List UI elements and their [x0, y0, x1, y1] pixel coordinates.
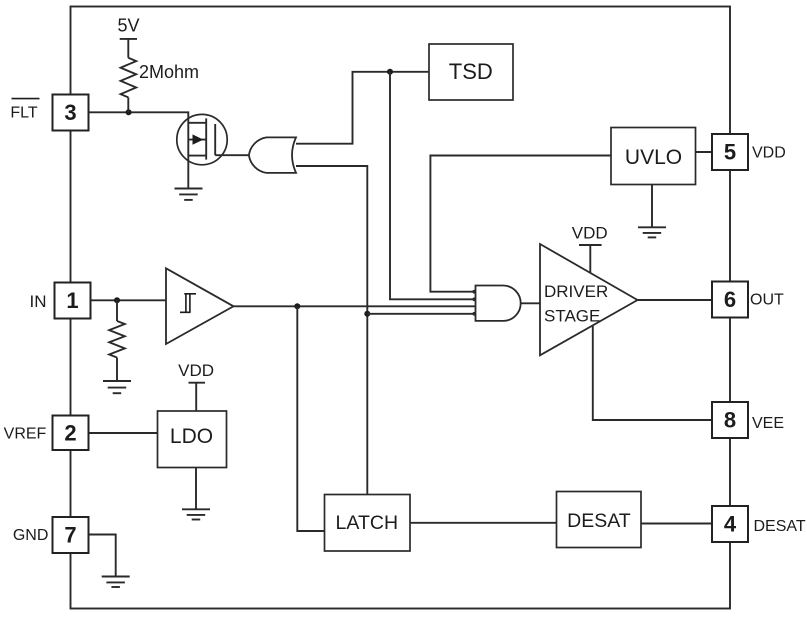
LDO block — [158, 411, 227, 468]
pin 5 — [712, 134, 748, 170]
pin 1 — [55, 283, 91, 319]
wire: down to LATCH left input — [297, 306, 324, 531]
svg-text:FLT: FLT — [10, 105, 37, 122]
pin 3 — [53, 95, 89, 131]
pin 2 — [53, 416, 89, 451]
resistor R1 2Mohm — [121, 58, 137, 98]
pin 4 — [712, 506, 748, 542]
svg-text:VDD: VDD — [178, 361, 214, 380]
and-gate G2 — [476, 286, 521, 321]
wire: resistor to ground — [116, 358, 118, 382]
svg-text:DESAT: DESAT — [567, 510, 631, 532]
transistor Q1 circle — [177, 114, 227, 164]
wire: resistor to FLT net — [127, 97, 129, 112]
LATCH block — [325, 495, 411, 552]
wire: 5V to resistor — [127, 39, 129, 58]
wire: LATCH to DESAT block — [410, 522, 557, 524]
svg-text:VREF: VREF — [4, 426, 47, 443]
wire: AND output to driver — [521, 302, 540, 304]
IC boundary border — [71, 7, 731, 609]
VDD bar above driver — [579, 244, 602, 246]
svg-text:2: 2 — [64, 421, 76, 446]
pin 6 — [712, 282, 748, 318]
svg-text:8: 8 — [724, 408, 736, 433]
wire: Q1 drain to OR gate output — [215, 154, 249, 156]
schmitt hysteresis symbol — [180, 294, 196, 313]
svg-text:VEE: VEE — [752, 415, 784, 432]
wire: TSD output to OR gate top input — [296, 72, 429, 144]
node: AND input 4 junction — [364, 311, 370, 317]
svg-text:5V: 5V — [117, 16, 139, 36]
svg-text:TSD: TSD — [449, 59, 493, 84]
ground under Q1 — [175, 189, 203, 200]
wire: DESAT block to pin4 — [641, 523, 712, 525]
svg-text:IN: IN — [30, 292, 47, 311]
svg-text:STAGE: STAGE — [544, 307, 600, 326]
wire: VDD to LDO — [195, 383, 197, 411]
svg-text:6: 6 — [724, 287, 736, 312]
schmitt trigger U1 — [166, 268, 234, 344]
svg-text:5: 5 — [724, 140, 736, 165]
svg-text:LATCH: LATCH — [336, 512, 398, 534]
svg-text:2Mohm: 2Mohm — [139, 62, 199, 82]
wire: LDO to ground — [195, 468, 197, 509]
wire: pin7 to ground — [89, 535, 116, 577]
node: FLT pullup junction — [126, 109, 132, 115]
wire: UVLO to AND input 1 — [430, 156, 611, 292]
svg-text:OUT: OUT — [750, 292, 784, 309]
driver stage triangle — [540, 244, 638, 355]
wire: driver output to pin6 — [638, 299, 713, 301]
wire: pin2 to LDO — [89, 432, 158, 434]
wire: driver to pin8 VEE — [593, 325, 712, 420]
Q1 source arrow — [188, 139, 206, 141]
TSD block — [429, 44, 513, 100]
node: AND input nubs — [472, 290, 476, 316]
VDD bar above LDO — [189, 382, 206, 384]
wire: pin3 to MOSFET gate — [89, 112, 189, 188]
svg-text:3: 3 — [64, 100, 76, 125]
ground under UVLO — [638, 227, 666, 237]
svg-text:LDO: LDO — [170, 425, 213, 448]
wire: OR gate bottom input from IN/LATCH net — [296, 166, 367, 495]
svg-text:DESAT: DESAT — [754, 518, 806, 535]
svg-text:4: 4 — [724, 512, 737, 537]
pin 7 — [53, 517, 89, 553]
svg-text:UVLO: UVLO — [625, 146, 682, 169]
Q1 gate bar — [205, 118, 207, 159]
node: TSD branch junction — [387, 69, 393, 75]
UVLO block — [611, 128, 696, 185]
Q1 gate top stub — [188, 122, 206, 124]
svg-text:GND: GND — [13, 527, 49, 544]
wire: AND input 4 — [367, 313, 478, 315]
wire: pin1 to schmitt input — [91, 299, 167, 301]
Q1 channel bar — [214, 124, 216, 155]
wire: schmitt output to AND input 3 — [234, 305, 479, 307]
svg-text:1: 1 — [66, 288, 78, 313]
node: LATCH branch junction — [294, 303, 300, 309]
5V supply bar — [120, 38, 137, 40]
DESAT block — [557, 492, 642, 548]
ground under R2 — [103, 381, 131, 393]
Q1 bottom stub — [188, 155, 206, 157]
or-gate G1 (mirrored, output at left) — [249, 137, 296, 173]
wire: VDD into driver — [589, 245, 591, 273]
svg-text:VDD: VDD — [752, 145, 786, 162]
resistor R2 (IN pulldown) — [109, 321, 125, 358]
node: IN resistor junction — [114, 297, 120, 303]
wire: junction to resistor — [116, 300, 118, 321]
svg-text:DRIVER: DRIVER — [544, 282, 608, 301]
pin 8 — [712, 402, 748, 438]
wire: TSD branch down to AND input 2 — [390, 72, 478, 299]
svg-text:7: 7 — [64, 523, 76, 548]
ground under LDO — [182, 509, 210, 519]
svg-text:VDD: VDD — [572, 224, 608, 243]
ground at pin7 — [102, 577, 130, 588]
wire: UVLO to ground — [651, 185, 653, 228]
wire: UVLO to pin5 — [696, 151, 713, 153]
